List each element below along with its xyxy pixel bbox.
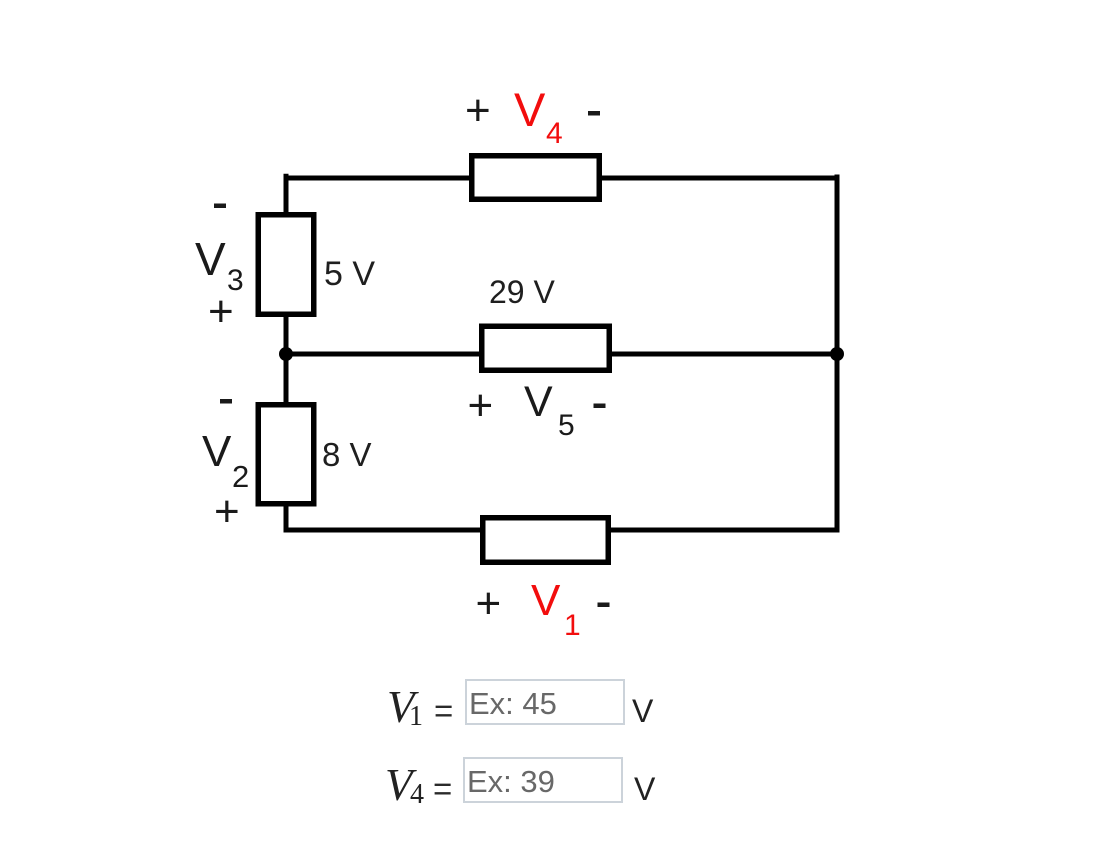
svg-text:29 V: 29 V xyxy=(489,274,555,310)
label minus of V3 xyxy=(214,204,226,209)
svg-text:4: 4 xyxy=(546,117,563,150)
svg-text:V: V xyxy=(195,233,226,285)
svg-text:5: 5 xyxy=(558,409,575,442)
label plus of V3 xyxy=(208,287,234,336)
label value 8 V xyxy=(322,436,372,473)
svg-text:8 V: 8 V xyxy=(322,436,372,473)
resistor V4 xyxy=(472,156,600,200)
label minus of V4 xyxy=(588,111,600,116)
label value 5 V xyxy=(324,255,375,293)
answer row V4 xyxy=(385,763,413,808)
answer row V1 xyxy=(387,685,415,730)
label V2 xyxy=(202,427,232,476)
svg-text:V: V xyxy=(202,427,232,476)
node A junction dot left xyxy=(279,347,293,361)
svg-text:+: + xyxy=(208,287,234,336)
label plus of V4 xyxy=(465,86,491,135)
label V4 xyxy=(514,83,546,136)
svg-text:+: + xyxy=(214,487,240,536)
svg-text:+: + xyxy=(468,381,494,430)
label minus of V1 xyxy=(598,603,610,608)
label V1 subscript 1 xyxy=(564,609,581,642)
svg-text:5 V: 5 V xyxy=(324,255,375,293)
resistor V5 xyxy=(482,326,610,370)
resistor V2 xyxy=(258,405,314,504)
label minus of V2 xyxy=(220,399,232,404)
wire right vertical xyxy=(835,175,840,533)
svg-text:+: + xyxy=(465,86,491,135)
label V5 subscript 5 xyxy=(558,409,575,442)
svg-text:V: V xyxy=(531,576,561,625)
label plus of V2 xyxy=(214,487,240,536)
svg-text:1: 1 xyxy=(564,609,581,642)
resistor V3 xyxy=(258,215,314,315)
svg-text:V: V xyxy=(524,378,553,426)
label V5 xyxy=(524,378,553,426)
label V3 subscript 3 xyxy=(227,264,244,297)
svg-text:V: V xyxy=(514,83,546,136)
wire bottom horizontal xyxy=(286,528,837,533)
label V2 subscript 2 xyxy=(232,459,249,494)
label value 29 V xyxy=(489,274,555,310)
wire middle horizontal xyxy=(286,352,837,357)
label plus of V5 xyxy=(468,381,494,430)
resistor V1 xyxy=(483,518,609,563)
label V3 xyxy=(195,233,226,285)
label V1 xyxy=(531,576,561,625)
wire top horizontal xyxy=(284,176,840,181)
label V4 subscript 4 xyxy=(546,117,563,150)
label plus of V1 xyxy=(476,579,502,628)
node B junction dot right xyxy=(830,347,844,361)
label minus of V5 xyxy=(594,404,606,409)
wire left vertical xyxy=(284,174,289,533)
svg-text:+: + xyxy=(476,579,502,628)
